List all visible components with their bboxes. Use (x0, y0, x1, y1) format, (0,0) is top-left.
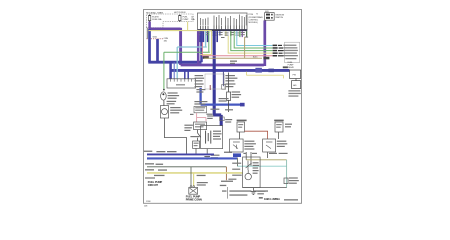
prime connector note box (194, 106, 207, 112)
fan destination text box (285, 42, 300, 62)
yellow bus (147, 172, 243, 174)
switch contact symbol (198, 130, 201, 141)
wire from connector to ground bus (195, 148, 197, 154)
small text left (190, 114, 194, 115)
blue bus end label block (233, 153, 241, 157)
pink jumper label (207, 115, 214, 119)
PCM box U1 (198, 13, 248, 30)
PCM wire name smudges (199, 32, 248, 38)
switch label left (184, 125, 193, 131)
wire B down (278, 132, 280, 139)
wire navy vertical left (fuse feed) (148, 29, 151, 62)
gauge box left (230, 139, 244, 152)
tan wire end label (263, 57, 269, 60)
connector B label (274, 120, 284, 122)
terminal circles (190, 186, 192, 188)
tank ground label (257, 191, 265, 195)
stub below gauge right (267, 152, 269, 158)
wire purple horizontal to S-branch (148, 28, 180, 31)
fan arrowheads and wire labels (273, 45, 284, 57)
relay note text (288, 90, 301, 97)
thin dark wire bus (147, 166, 226, 168)
bus labels above navy (144, 151, 232, 153)
wire pump to ground bus (206, 149, 208, 155)
fuse F2 FUEL PUMP (179, 15, 181, 22)
svg-text:CIRCUIT: CIRCUIT (148, 184, 159, 187)
svg-text:ORN: ORN (164, 38, 169, 40)
PCM pin stubs inside box (201, 26, 245, 30)
connector box on switch line (193, 141, 200, 148)
wire purple from PCM pin to band (197, 31, 200, 65)
blue bus to fuel pump (147, 157, 237, 159)
gauge connector box A (237, 122, 245, 132)
fuel pump (left) box with motor (160, 106, 168, 118)
wire yellow from fuse F2 (149, 22, 212, 55)
yellow wire to relay (247, 72, 284, 79)
svg-text:IGN: IGN (265, 11, 269, 13)
wire navy drops band2 to DLC (184, 70, 186, 79)
svg-text:SWITCH: SWITCH (275, 17, 283, 19)
connector blob at blue wire end (240, 103, 245, 107)
wire cyan elbow from PCM to DLC (177, 31, 207, 79)
oil pressure switch body (227, 92, 231, 100)
sender motor circle (245, 173, 251, 179)
PCM vertical pin-name smudges (200, 15, 247, 26)
ground under tank (252, 188, 254, 191)
bottom right note (259, 197, 263, 198)
svg-text:IGNITION: IGNITION (275, 14, 284, 16)
fan wire pink (202, 42, 272, 56)
dark stub to cyan (236, 158, 238, 167)
wire green from PCM to fuel pump sender (164, 31, 210, 89)
oval connector label (168, 92, 180, 98)
tank bottom wire (243, 187, 287, 189)
fuse F1 ECM B (148, 15, 150, 22)
navy ground bus (147, 153, 214, 155)
wire navy drop to DLC (169, 62, 172, 79)
wire from left pump down to ground bus (165, 118, 187, 155)
right drop label (289, 177, 299, 183)
text right of connector box B (285, 124, 292, 125)
svg-text:PUMP: PUMP (183, 19, 189, 21)
connector C100 marks on navy band2 (255, 68, 262, 73)
pink prime jumper (197, 113, 206, 122)
connector A label (237, 120, 247, 122)
relay box K1 (290, 70, 301, 79)
wire navy main drop from PCM (213, 31, 221, 126)
text near navy elbow (206, 109, 233, 115)
fuse block outline (stepped, dashed) (146, 14, 193, 28)
svg-text:1998 LUMINA: 1998 LUMINA (264, 198, 280, 201)
svg-text:HOT IN RUN: HOT IN RUN (174, 12, 186, 14)
svg-text:(POWERTRAIN: (POWERTRAIN (249, 16, 263, 19)
DLC inner label (176, 84, 185, 85)
in-line connector symbol (oval) (161, 92, 167, 100)
wire thin dark from fuse block (146, 28, 148, 39)
legend text rows (220, 181, 268, 196)
maroon stub (209, 85, 211, 90)
right drop vertical (286, 160, 288, 188)
prime connector text rows (194, 101, 207, 105)
wire navy band1 horizontal (148, 61, 201, 64)
wire to prime pump (163, 100, 165, 105)
wire labels under bands (right column) (225, 75, 237, 87)
ignition switch SW1 (265, 11, 275, 20)
stub below gauge left (245, 152, 247, 160)
wire blue thin drop to DLC (173, 62, 175, 79)
relay lower box (292, 81, 301, 89)
bus labels left (145, 163, 206, 176)
svg-text:◄: ◄ (256, 13, 258, 16)
connector mark at pump feed (220, 117, 225, 121)
blue wire from DLC down and right (201, 88, 241, 105)
connector dashed line C1 (146, 38, 163, 40)
DLC connector box (167, 79, 196, 88)
gauge box right (263, 139, 276, 152)
DLC pin ticks (171, 79, 192, 82)
label right of feed wires (197, 182, 208, 186)
wire A down (239, 132, 241, 139)
tank-left legend rows (228, 163, 241, 180)
bottom component feed wires (190, 167, 192, 187)
olive wire gauge to right drop (246, 159, 286, 161)
wire navy from PCM pin to band1 (200, 31, 203, 62)
gauge box left label (244, 141, 256, 150)
fan wire green 1 (234, 31, 272, 48)
gauge box right label (277, 141, 288, 147)
fuel pump inner label (213, 131, 222, 140)
connector stub on second navy drop (222, 72, 224, 87)
legend divider line (227, 187, 229, 199)
oil pressure switch label (232, 91, 242, 97)
svg-text:MODULE): MODULE) (249, 22, 258, 24)
fan wire cyan (237, 31, 273, 46)
fuel pump (left) label (170, 107, 182, 113)
svg-text:PRIME CONN: PRIME CONN (186, 199, 202, 202)
oil pressure switch line (228, 73, 230, 113)
fan wire yellow (228, 36, 272, 53)
svg-text:RELAY: RELAY (288, 66, 295, 69)
wire label (167, 101, 177, 105)
wire navy band2 horizontal to relay (171, 69, 290, 72)
oil switch box (lower) (194, 122, 207, 130)
fuel tank sender box (243, 157, 261, 188)
fan wire green 2 (231, 31, 273, 51)
fuel pump motor symbol (206, 131, 211, 144)
node dot green wire (163, 89, 165, 91)
wire purple vertical branch down (179, 28, 182, 65)
stub labels (243, 153, 287, 154)
text above fuel pump box (225, 119, 232, 123)
fuel pump main box (201, 126, 223, 149)
red inter-wire (245, 131, 268, 139)
small connector on right drop (284, 178, 288, 184)
wire purple band horizontal to ignition switch (181, 64, 264, 67)
ground G102 label (211, 155, 220, 159)
wire purple up to ignition switch (263, 20, 266, 66)
gauge connector box B (275, 122, 283, 132)
fan wire tan (204, 37, 262, 58)
bottom component G103 box (189, 187, 198, 194)
label at yellow wire end (203, 56, 209, 59)
sender symbol (246, 161, 252, 170)
label above connector box (190, 136, 199, 137)
cyan sender bus (237, 165, 286, 167)
brown drop from dark bus (225, 167, 227, 180)
svg-text:PW: PW (293, 75, 296, 77)
connector box C100 under bands (205, 74, 225, 89)
PCM wire stubs below connector (200, 31, 248, 42)
extra wire-label rows mid column (196, 89, 228, 102)
svg-text:A/D: A/D (293, 84, 297, 87)
extra left label row (145, 177, 155, 178)
ground G102 symbol (204, 156, 210, 159)
wire labels under bands (left column) (195, 75, 205, 87)
sender inner labels (253, 162, 260, 174)
PCM connector hatch row (198, 29, 248, 31)
splice label under fan (230, 61, 237, 62)
link between relay boxes (295, 79, 297, 81)
border frame (144, 10, 302, 204)
label above relay wire (283, 66, 288, 68)
svg-text:FUSE 10A: FUSE 10A (152, 18, 162, 21)
wire purple from fuse F1 (148, 22, 151, 29)
wire navy vertical second (156, 39, 159, 62)
